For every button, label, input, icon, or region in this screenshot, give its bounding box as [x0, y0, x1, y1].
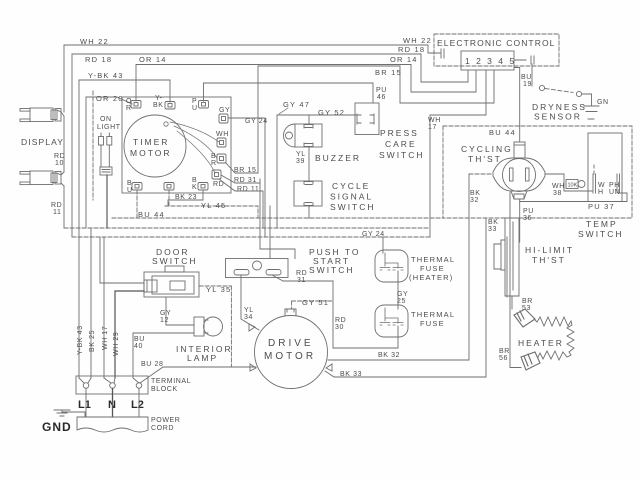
terminal block TB1 [76, 376, 148, 394]
wire BK 32 [328, 174, 469, 360]
wire GY 52 [309, 114, 356, 116]
svg-text:SENSOR: SENSOR [534, 112, 582, 122]
wire into push switch [260, 183, 295, 259]
timer terminal BK [198, 183, 208, 191]
svg-text:34: 34 [244, 314, 253, 321]
svg-text:BR: BR [499, 348, 510, 355]
svg-text:19: 19 [523, 81, 532, 88]
wire GY 12 [166, 297, 194, 325]
svg-text:TERMINAL: TERMINAL [151, 378, 191, 385]
svg-text:Y-: Y- [155, 95, 163, 102]
svg-text:12: 12 [160, 317, 169, 324]
wire BR 15 to timer [226, 66, 258, 173]
wire L2 down [138, 389, 140, 418]
wire L1 down [85, 389, 87, 418]
svg-text:FUSE: FUSE [420, 264, 445, 273]
svg-text:BK: BK [470, 190, 481, 197]
timer terminal RD [212, 170, 221, 179]
push to start switch S4 [226, 259, 289, 278]
wire RD 11 from timer [219, 179, 263, 228]
wire N down [112, 389, 114, 418]
wire WH 17 from control [430, 70, 486, 237]
svg-text:SIGNAL: SIGNAL [330, 192, 373, 202]
timer terminal mid [164, 183, 174, 191]
svg-text:BR: BR [522, 298, 533, 305]
wire YL 45 bus [165, 190, 258, 218]
vertical Y-BK 43 label [77, 325, 84, 355]
timer terminal BR [217, 154, 226, 163]
wire YL 35 [199, 286, 231, 367]
dryness sensor contact 1 [539, 85, 544, 90]
wire WH 22 [64, 45, 440, 112]
svg-text:H: H [598, 189, 604, 196]
ground symbol GN [584, 106, 599, 119]
svg-text:UN: UN [609, 189, 620, 196]
svg-text:SWITCH: SWITCH [152, 256, 198, 266]
svg-text:LAMP: LAMP [187, 353, 218, 363]
svg-text:B: B [127, 180, 132, 187]
svg-text:10K: 10K [568, 183, 578, 189]
console enclosure edge [92, 91, 94, 200]
timer terminal PU [199, 101, 209, 109]
svg-text:CORD: CORD [151, 425, 174, 432]
svg-text:Y-BK 43: Y-BK 43 [88, 71, 124, 80]
door switch S5 [144, 266, 199, 297]
svg-text:BR 15: BR 15 [234, 167, 256, 174]
svg-text:SWITCH: SWITCH [330, 202, 376, 212]
svg-text:WH 22: WH 22 [80, 37, 109, 46]
display connector top P1 [20, 108, 64, 122]
svg-text:WH: WH [216, 131, 229, 138]
wire WH 17 bottom [103, 237, 105, 378]
svg-text:CYCLE: CYCLE [332, 181, 370, 191]
heater element R1 [534, 317, 574, 360]
svg-text:HI-LIMIT: HI-LIMIT [525, 245, 574, 255]
svg-text:17: 17 [428, 124, 437, 131]
cycling enclosure box [443, 126, 632, 218]
wire BK 33 [325, 218, 486, 377]
wire BU 28 [140, 367, 256, 383]
wire to door switch upper [100, 237, 144, 283]
dryness sensor contact 2 [576, 91, 581, 96]
svg-text:39: 39 [296, 158, 305, 165]
motor terminal left bottom [250, 364, 256, 371]
svg-text:TH'ST: TH'ST [468, 154, 502, 164]
wire push top feed [269, 206, 271, 259]
svg-text:GY 47: GY 47 [283, 100, 310, 109]
svg-text:PRESS: PRESS [380, 128, 419, 138]
svg-text:TIMER: TIMER [133, 137, 169, 147]
svg-text:38: 38 [553, 190, 562, 197]
timer terminal OR [131, 101, 141, 109]
svg-text:56: 56 [499, 355, 508, 362]
svg-text:GY: GY [160, 310, 171, 317]
svg-text:THERMAL: THERMAL [411, 310, 455, 319]
svg-text:GND: GND [42, 420, 72, 434]
wire from on light down [106, 175, 108, 228]
svg-text:WH 29: WH 29 [113, 332, 120, 356]
svg-text:SWITCH: SWITCH [309, 265, 355, 275]
svg-text:GN: GN [597, 99, 609, 106]
svg-text:PU 37: PU 37 [588, 202, 615, 211]
ground wire [62, 410, 85, 417]
svg-text:CARE: CARE [385, 139, 417, 149]
wire WH 38 [545, 174, 592, 191]
timer motor circle M1 [124, 115, 186, 177]
resistor 10K [566, 180, 585, 189]
wire GY 47 [277, 115, 309, 228]
svg-text:BU: BU [521, 74, 532, 81]
svg-text:MOTOR: MOTOR [130, 148, 171, 158]
wire Y-BK 43 top [79, 80, 170, 378]
wire BU 19 to dryness sensor [514, 56, 534, 86]
temp switch box S3 [588, 133, 622, 202]
buzzer BZ1 [284, 124, 323, 147]
motor terminal right bottom [326, 364, 332, 371]
wire BK 25 [90, 228, 92, 378]
svg-text:11: 11 [53, 209, 61, 216]
svg-text:OR 14: OR 14 [139, 55, 167, 64]
svg-text:PU: PU [376, 87, 387, 94]
svg-text:DRYNESS: DRYNESS [532, 102, 587, 112]
svg-text:MOTOR: MOTOR [264, 351, 316, 362]
svg-text:BR 15: BR 15 [375, 68, 402, 77]
interior lamp DS1 [194, 317, 223, 336]
wire RD 11 [63, 186, 65, 228]
wire cycling left to BK32 [469, 173, 493, 175]
svg-text:BK 32: BK 32 [378, 352, 400, 359]
connector pins 1 2 3 4 5 [461, 51, 514, 70]
svg-text:RD 18: RD 18 [398, 45, 425, 54]
wire RD 10 [63, 116, 65, 172]
svg-text:P: P [192, 98, 197, 105]
svg-text:K: K [192, 184, 197, 191]
svg-text:TEMP: TEMP [586, 219, 618, 229]
svg-text:BK: BK [153, 102, 164, 109]
svg-text:BU 44: BU 44 [489, 128, 516, 137]
svg-text:WH: WH [428, 117, 441, 124]
wire GY 25 [397, 271, 399, 309]
svg-text:TH'ST: TH'ST [532, 255, 566, 265]
svg-text:O: O [126, 98, 132, 105]
timer box [122, 97, 231, 193]
bus WH 17 row [72, 236, 430, 238]
svg-text:BUZZER: BUZZER [315, 153, 361, 163]
thermal fuse heater F1 [375, 250, 408, 282]
svg-text:R: R [126, 105, 132, 112]
svg-text:BK 25: BK 25 [89, 330, 96, 352]
svg-text:YL: YL [296, 151, 306, 158]
svg-text:U: U [192, 105, 198, 112]
motor terminal top [285, 309, 296, 315]
svg-text:10: 10 [55, 160, 64, 167]
drive motor M2 [255, 316, 328, 389]
svg-text:YL 35: YL 35 [206, 285, 231, 294]
wire BR 15 top [258, 66, 494, 103]
timer terminal WH [217, 138, 226, 147]
svg-text:THERMAL: THERMAL [411, 255, 455, 264]
timer terminal Y-BK [165, 102, 175, 110]
svg-text:GY 24: GY 24 [362, 231, 385, 238]
svg-text:BLOCK: BLOCK [151, 386, 178, 393]
display connector bottom P2 [20, 171, 64, 186]
svg-text:Y-BK 43: Y-BK 43 [77, 325, 84, 355]
plug into control left [436, 49, 444, 58]
svg-text:25: 25 [397, 298, 406, 305]
press care switch S1 [355, 103, 379, 135]
wire OR 14 [136, 65, 476, 102]
wire PU 46 from timer [204, 83, 374, 103]
motor terminal left top [249, 324, 255, 331]
svg-text:L1: L1 [78, 399, 91, 411]
svg-text:PU: PU [523, 208, 534, 215]
svg-text:36: 36 [523, 215, 532, 222]
wire YL 34 [241, 275, 259, 330]
svg-text:BK 23: BK 23 [175, 194, 197, 201]
bus RD 11 row [64, 227, 430, 229]
wire BU 44 from control to cycling [514, 68, 520, 143]
svg-text:BU 44: BU 44 [138, 210, 165, 219]
svg-text:ELECTRONIC CONTROL: ELECTRONIC CONTROL [437, 38, 556, 48]
svg-text:DRIVE: DRIVE [268, 338, 314, 349]
svg-text:OR 14: OR 14 [390, 55, 418, 64]
svg-text:RD: RD [296, 270, 307, 277]
svg-text:BU 28: BU 28 [141, 361, 163, 368]
svg-text:33: 33 [488, 226, 497, 233]
wire BU 40 [133, 333, 194, 383]
wire GY 51 [292, 301, 333, 308]
svg-text:RD: RD [51, 202, 62, 209]
svg-text:B: B [192, 177, 197, 184]
timer terminal BU [132, 183, 142, 191]
wire BK 23 [168, 190, 203, 206]
svg-text:BU: BU [134, 336, 145, 343]
heater plug bottom [521, 352, 540, 370]
svg-text:U: U [127, 187, 133, 194]
thermal fuse F2 [375, 305, 408, 337]
svg-text:GY 51: GY 51 [302, 298, 329, 307]
wire GY 24 from timer [228, 118, 265, 237]
hi-limit thermostat TH2 [494, 218, 519, 297]
timer terminal GY [219, 114, 228, 123]
svg-text:L2: L2 [131, 399, 144, 411]
svg-text:B: B [211, 153, 216, 160]
wire RD 31 from timer [221, 175, 260, 183]
svg-text:40: 40 [134, 343, 143, 350]
electronic control U1 [434, 34, 559, 66]
wire BR 56 return [510, 192, 521, 368]
svg-text:LIGHT: LIGHT [97, 124, 121, 131]
svg-text:SWITCH: SWITCH [578, 229, 624, 239]
svg-text:PH: PH [609, 182, 620, 189]
svg-text:HEATER: HEATER [518, 338, 564, 348]
wire BU 44 bus [112, 190, 443, 218]
svg-text:FUSE: FUSE [420, 319, 445, 328]
dryness sensor blade [545, 89, 573, 93]
svg-text:31: 31 [297, 277, 306, 284]
svg-text:RD: RD [335, 317, 346, 324]
svg-text:1 2 3 4 5: 1 2 3 4 5 [465, 56, 516, 66]
svg-text:OR 20: OR 20 [96, 94, 124, 103]
svg-text:YL: YL [244, 307, 254, 314]
svg-text:BK: BK [488, 219, 499, 226]
power cord [77, 417, 148, 432]
on light lamp body [100, 145, 112, 175]
GY47 arrow [279, 108, 288, 114]
wire PU 37 [520, 193, 627, 202]
svg-text:POWER: POWER [151, 417, 180, 424]
wire RD 30 [333, 281, 398, 348]
wire WH 29 from door [115, 291, 144, 378]
wire hi-limit to heater plug [511, 296, 513, 309]
svg-text:RD 11: RD 11 [237, 186, 259, 193]
vertical WH 17 label [102, 326, 109, 350]
svg-text:WH 17: WH 17 [102, 326, 109, 350]
wire OR 20 [86, 97, 132, 228]
vertical WH 29 label [113, 332, 120, 356]
svg-text:CYCLING: CYCLING [461, 144, 513, 154]
wire to GN ground [582, 94, 592, 105]
svg-text:GY 24: GY 24 [245, 118, 268, 125]
svg-text:30: 30 [335, 324, 344, 331]
ground symbol [54, 410, 70, 416]
on light lamp prongs [99, 133, 112, 145]
svg-text:(HEATER): (HEATER) [409, 273, 453, 282]
timer cam curves [164, 122, 219, 173]
heater plug top [514, 309, 535, 327]
temp switch contacts [593, 165, 620, 193]
cycling thermostat TH1 [493, 142, 545, 199]
svg-text:RD 18: RD 18 [85, 55, 112, 64]
cycle signal switch S2 [294, 147, 322, 218]
svg-text:W: W [598, 182, 605, 189]
svg-text:WH 22: WH 22 [403, 36, 432, 45]
svg-text:YL 45: YL 45 [201, 201, 226, 210]
svg-text:ON: ON [100, 116, 112, 123]
wire RD 18 [72, 54, 468, 237]
svg-text:BK 33: BK 33 [340, 371, 362, 378]
svg-text:32: 32 [470, 197, 479, 204]
svg-text:GY 52: GY 52 [318, 108, 345, 117]
svg-text:GY: GY [397, 291, 408, 298]
wire PU 36 [519, 199, 521, 242]
svg-text:GY: GY [219, 107, 230, 114]
svg-text:SWITCH: SWITCH [379, 150, 425, 160]
svg-text:R: R [211, 160, 217, 167]
vertical BK 25 label [89, 330, 96, 352]
wire RD 31 out [272, 275, 333, 281]
svg-text:46: 46 [377, 94, 386, 101]
wire GY24 into fuse [382, 237, 384, 253]
svg-text:DISPLAY: DISPLAY [21, 137, 64, 147]
svg-text:WH: WH [552, 183, 565, 190]
